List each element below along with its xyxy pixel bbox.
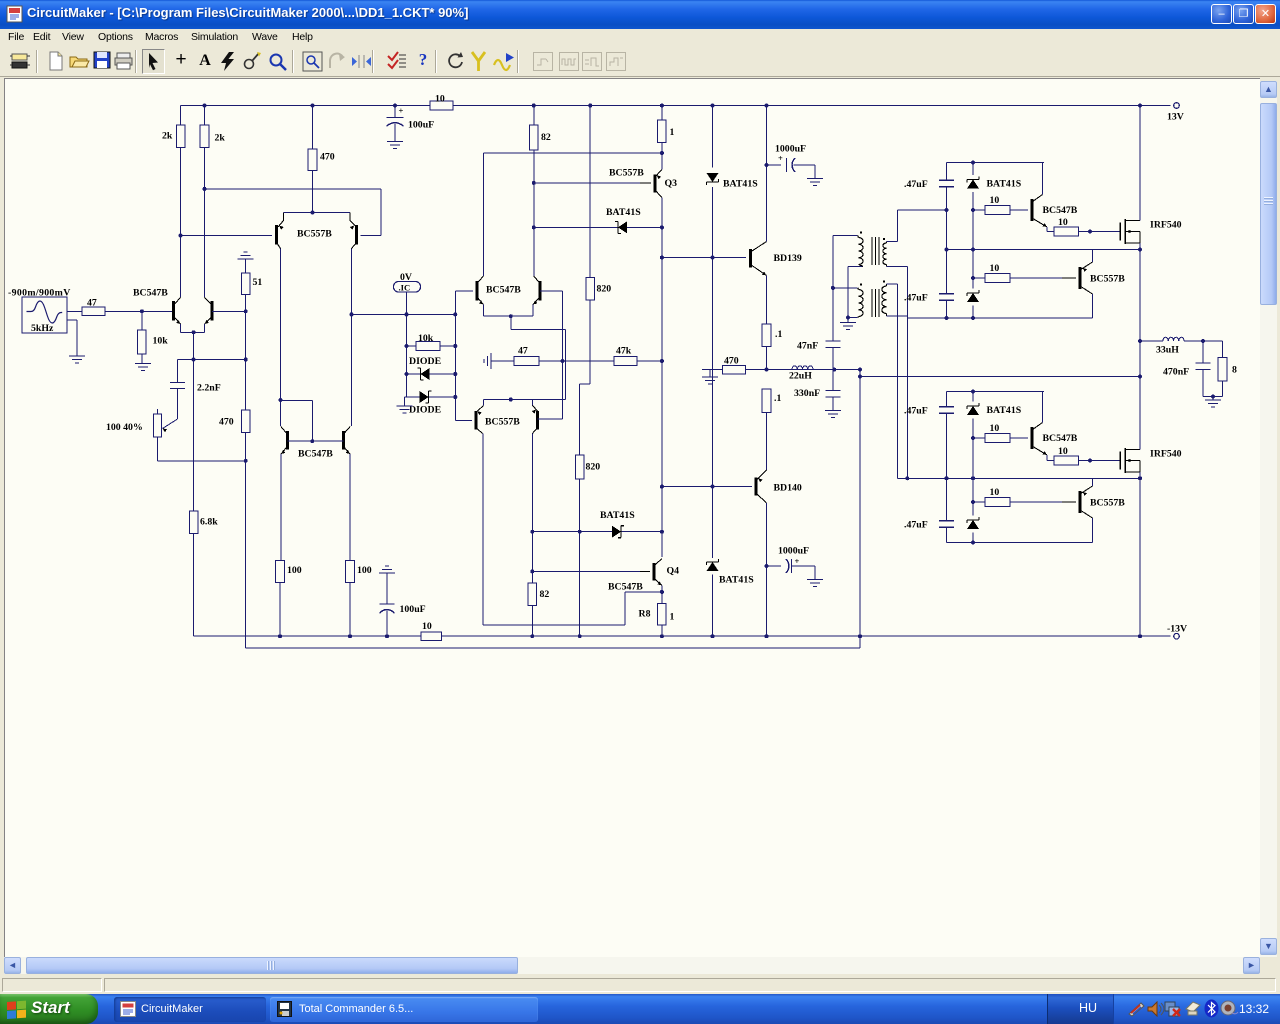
svg-text:470: 470 <box>724 356 739 367</box>
svg-text:BD139: BD139 <box>774 253 802 264</box>
svg-text:-13V: -13V <box>1167 624 1187 635</box>
svg-text:Q4: Q4 <box>667 566 680 577</box>
svg-text:BAT41S: BAT41S <box>600 510 635 521</box>
svg-text:100: 100 <box>357 565 372 576</box>
svg-text:100uF: 100uF <box>400 604 426 615</box>
svg-text:10: 10 <box>990 263 1000 274</box>
svg-text:.47uF: .47uF <box>904 520 928 531</box>
svg-text:BAT41S: BAT41S <box>723 179 758 190</box>
svg-text:47k: 47k <box>616 346 632 357</box>
svg-text:22uH: 22uH <box>789 371 812 382</box>
svg-text:2.2nF: 2.2nF <box>197 383 221 394</box>
svg-text:BD140: BD140 <box>774 483 802 494</box>
svg-text:BC557B: BC557B <box>485 417 520 428</box>
svg-text:10k: 10k <box>153 336 169 347</box>
svg-text:8: 8 <box>1232 365 1237 376</box>
svg-text:47: 47 <box>87 298 97 309</box>
svg-text:.47uF: .47uF <box>904 293 928 304</box>
svg-text:6.8k: 6.8k <box>200 517 218 528</box>
svg-text:1: 1 <box>670 127 675 138</box>
svg-text:BAT41S: BAT41S <box>987 405 1022 416</box>
svg-text:.1: .1 <box>774 393 781 404</box>
svg-text:10: 10 <box>990 195 1000 206</box>
svg-text:2k: 2k <box>162 131 173 142</box>
svg-text:BC547B: BC547B <box>298 449 333 460</box>
svg-text:+: + <box>795 556 800 566</box>
svg-text:13V: 13V <box>1167 112 1184 123</box>
svg-text:BAT41S: BAT41S <box>987 179 1022 190</box>
svg-text:1000uF: 1000uF <box>775 144 806 155</box>
svg-text:10: 10 <box>1058 217 1068 228</box>
svg-text:33uH: 33uH <box>1156 345 1179 356</box>
svg-text:DIODE: DIODE <box>409 405 442 416</box>
svg-text:BC547B: BC547B <box>1043 205 1078 216</box>
svg-text:100: 100 <box>287 565 302 576</box>
svg-text:82: 82 <box>540 589 550 600</box>
svg-text:10: 10 <box>435 94 445 105</box>
svg-text:820: 820 <box>597 284 612 295</box>
svg-text:+: + <box>399 106 404 116</box>
svg-text:BAT41S: BAT41S <box>719 575 754 586</box>
svg-text:470: 470 <box>320 152 335 163</box>
svg-text:10k: 10k <box>418 333 434 344</box>
svg-text:47nF: 47nF <box>797 341 818 352</box>
svg-text:IRF540: IRF540 <box>1150 449 1182 460</box>
svg-text:BC547B: BC547B <box>608 582 643 593</box>
svg-text:100 40%: 100 40% <box>106 422 143 433</box>
svg-text:.IC: .IC <box>399 283 411 293</box>
svg-text:.1: .1 <box>775 329 782 340</box>
svg-text:.47uF: .47uF <box>904 179 928 190</box>
svg-text:51: 51 <box>253 277 263 288</box>
svg-text:BC547B: BC547B <box>486 285 521 296</box>
svg-text:BC547B: BC547B <box>133 288 168 299</box>
svg-text:BC557B: BC557B <box>297 229 332 240</box>
svg-text:470: 470 <box>219 417 234 428</box>
svg-text:1: 1 <box>670 612 675 623</box>
svg-text:BAT41S: BAT41S <box>606 207 641 218</box>
svg-text:BC557B: BC557B <box>1090 498 1125 509</box>
svg-text:+: + <box>778 153 783 163</box>
svg-text:BC547B: BC547B <box>1043 433 1078 444</box>
svg-text:DIODE: DIODE <box>409 356 442 367</box>
svg-text:1000uF: 1000uF <box>778 546 809 557</box>
svg-text:BC557B: BC557B <box>609 168 644 179</box>
svg-text:470nF: 470nF <box>1163 367 1189 378</box>
svg-text:Q3: Q3 <box>665 178 678 189</box>
svg-text:100uF: 100uF <box>408 120 434 131</box>
svg-text:10: 10 <box>990 423 1000 434</box>
svg-text:5kHz: 5kHz <box>31 323 54 334</box>
svg-text:82: 82 <box>541 132 551 143</box>
svg-text:.47uF: .47uF <box>904 406 928 417</box>
svg-text:820: 820 <box>586 462 601 473</box>
svg-text:R8: R8 <box>639 609 651 620</box>
svg-text:330nF: 330nF <box>794 388 820 399</box>
svg-text:BC557B: BC557B <box>1090 274 1125 285</box>
svg-text:10: 10 <box>990 487 1000 498</box>
svg-text:10: 10 <box>1058 446 1068 457</box>
svg-text:2k: 2k <box>215 133 226 144</box>
svg-text:IRF540: IRF540 <box>1150 220 1182 231</box>
svg-text:10: 10 <box>422 621 432 632</box>
svg-text:47: 47 <box>518 346 528 357</box>
